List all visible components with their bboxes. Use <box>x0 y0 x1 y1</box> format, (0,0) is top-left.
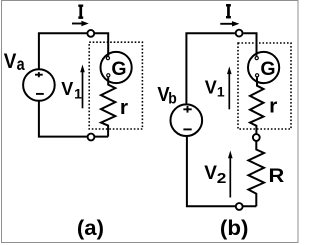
svg-text:r: r <box>269 95 277 117</box>
voltage arrow V2 (b) <box>228 151 233 198</box>
wire (a: battery bottom, down and right along bottom to resistor r) <box>39 102 108 137</box>
current label I (b) <box>226 4 231 18</box>
voltage label V1 (b) <box>205 78 225 100</box>
label Vb <box>157 84 176 107</box>
wire (b: from battery Vb top, up and right to top node) <box>186 33 235 104</box>
node (a: top junction) <box>87 30 94 37</box>
resistor r (b) <box>250 78 264 134</box>
svg-text:V: V <box>61 79 73 99</box>
svg-text:R: R <box>269 165 285 187</box>
svg-text:(b): (b) <box>220 215 249 240</box>
wire (b: top node right then down to galvanometer) <box>243 32 256 56</box>
battery Va <box>23 69 55 101</box>
dotted box (b: galvanometer with internal resistance r) <box>238 43 291 129</box>
svg-text:1: 1 <box>217 84 225 100</box>
svg-text:V: V <box>4 50 17 73</box>
svg-text:G: G <box>260 58 275 80</box>
label Va <box>4 50 26 74</box>
current label I (a) <box>78 5 83 19</box>
galvanometer G (a) <box>101 52 132 83</box>
voltage arrow V1 (b) <box>227 66 232 109</box>
wire (b: battery bottom, down and right along bottom to resistor R) <box>187 137 256 207</box>
resistor r (a) <box>101 78 115 137</box>
galvanometer G (b) <box>248 52 279 83</box>
current arrow I (a) <box>72 21 89 26</box>
svg-text:G: G <box>111 58 126 80</box>
voltage arrow V1 (a) <box>80 65 85 109</box>
voltage label V1 (a) <box>61 79 82 101</box>
node (b: junction between r and R) <box>253 134 260 141</box>
current arrow I (b) <box>220 21 239 26</box>
svg-text:V: V <box>205 78 217 98</box>
node (a: bottom junction) <box>88 134 95 141</box>
resistor R (b) <box>248 141 264 206</box>
dotted box (a: galvanometer with internal resistance r) <box>89 42 142 129</box>
svg-text:V: V <box>204 163 217 184</box>
voltage label V2 (b) <box>204 163 226 187</box>
svg-text:a: a <box>17 54 26 74</box>
svg-text:1: 1 <box>74 85 82 101</box>
svg-text:(a): (a) <box>77 215 104 240</box>
battery Vb <box>171 104 203 136</box>
wire (a: from battery Va top, up and right to top node) <box>39 33 87 68</box>
node (b: top junction) <box>236 30 243 37</box>
wire (a: top node right then down to galvanometer) <box>95 32 108 56</box>
node (b: bottom junction) <box>236 203 243 210</box>
svg-text:r: r <box>120 96 128 118</box>
svg-text:b: b <box>168 91 177 108</box>
svg-text:2: 2 <box>217 170 227 187</box>
